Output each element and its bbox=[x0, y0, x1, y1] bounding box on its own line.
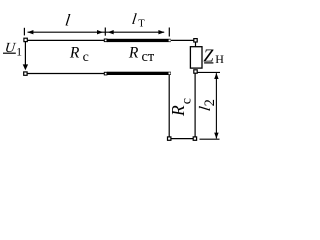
source U1: arrow wire bbox=[24, 42, 26, 66]
load Z_H: rectangle body bbox=[190, 47, 202, 68]
svg-text:R: R bbox=[128, 45, 139, 62]
wire: bottom conductor thin segment bbox=[27, 73, 104, 75]
dimension middle tick (node between line and transformer sections) bbox=[104, 28, 106, 36]
svg-text:ст: ст bbox=[142, 49, 155, 65]
node: stub bottom right terminal bbox=[193, 137, 196, 140]
node: top right end of transformer bar (open dot) bbox=[169, 40, 171, 42]
svg-text:R: R bbox=[69, 45, 80, 62]
dimension lT: left arrowhead bbox=[108, 30, 114, 34]
load Z_H: top lead bbox=[195, 42, 197, 47]
wire: stub bottom short-circuit bbox=[171, 138, 195, 140]
svg-text:с: с bbox=[180, 98, 195, 104]
node: top-left input terminal bbox=[24, 38, 27, 41]
dimension l: dimension line bbox=[28, 31, 165, 33]
node: bottom junction between feeder and transformer bbox=[104, 72, 108, 76]
node: bottom right corner of transformer bar (open dot) bbox=[169, 72, 171, 74]
dimension l: left arrowhead bbox=[27, 30, 33, 34]
wire: top conductor thin segment (feeder line) bbox=[27, 39, 104, 41]
node: stub bottom left terminal bbox=[168, 137, 171, 140]
node: bottom-left input terminal bbox=[24, 72, 27, 75]
wire: stub left vertical conductor bbox=[168, 75, 170, 137]
dimension l2: top arrowhead up bbox=[214, 73, 218, 79]
transmission line R_CT: top thick bar bbox=[107, 39, 171, 42]
source U1: arrowhead down bbox=[23, 64, 28, 70]
node: load top terminal bbox=[194, 39, 197, 42]
svg-text:с: с bbox=[83, 50, 89, 65]
dimension l: left extension tick bbox=[23, 28, 25, 36]
dimension l2: dimension line bbox=[215, 73, 217, 138]
dimension l: right arrowhead bbox=[97, 30, 103, 34]
svg-text:2: 2 bbox=[202, 99, 218, 106]
node: load bottom terminal bbox=[194, 70, 197, 73]
dimension lT: right arrowhead bbox=[158, 30, 164, 34]
svg-text:1: 1 bbox=[16, 47, 22, 59]
transmission line R_CT: bottom thick bar bbox=[107, 72, 171, 75]
dimension l2: top extension tick bbox=[198, 71, 221, 73]
node: top junction between feeder and transformer bbox=[104, 39, 108, 43]
svg-text:Т: Т bbox=[138, 18, 145, 29]
dimension l2: bottom extension tick bbox=[200, 138, 220, 140]
wire: stub right vertical conductor bbox=[194, 73, 196, 137]
wire: top conductor to load bbox=[171, 39, 194, 41]
svg-text:R: R bbox=[168, 105, 188, 117]
dimension l2: bottom arrowhead down bbox=[214, 133, 218, 139]
svg-text:Н: Н bbox=[215, 52, 224, 66]
dimension lT: right extension tick bbox=[168, 28, 170, 37]
